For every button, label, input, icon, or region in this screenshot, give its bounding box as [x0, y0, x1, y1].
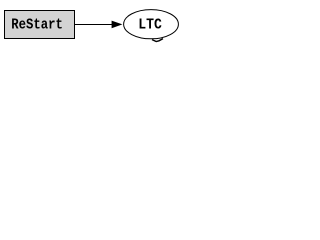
- kink artifact at ellipse bottom: [152, 39, 163, 42]
- svg-text:LTC: LTC: [138, 18, 162, 34]
- node ReStart (box): [5, 11, 75, 39]
- arrowhead: [112, 21, 123, 29]
- svg-text:ReStart: ReStart: [11, 18, 63, 34]
- node LTC (ellipse): [124, 10, 179, 39]
- wire edge ReStart->LTC: [75, 24, 113, 26]
